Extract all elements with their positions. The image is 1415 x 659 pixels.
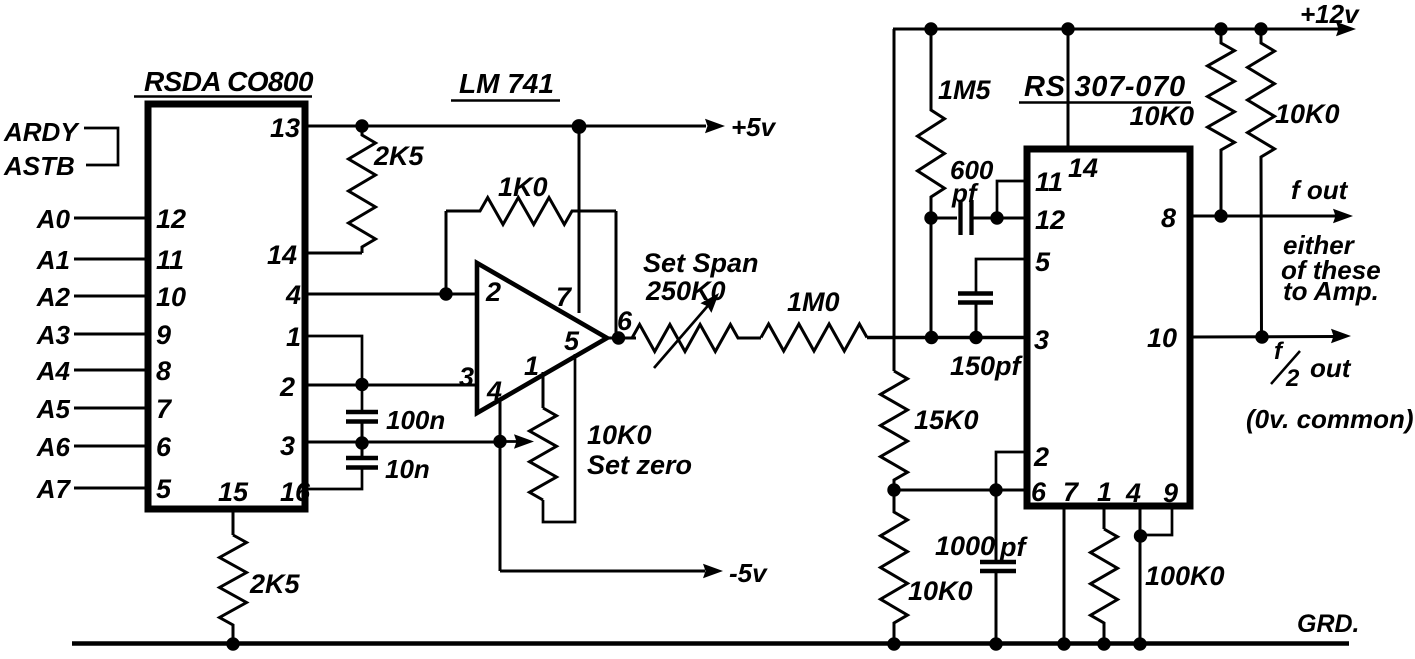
wire pin2(U3) jog xyxy=(996,452,1024,490)
wire pin8(U3) f out xyxy=(1190,215,1339,218)
svg-text:A4: A4 xyxy=(36,356,71,386)
wire op-amp output xyxy=(605,337,636,340)
svg-text:3: 3 xyxy=(1034,325,1049,355)
IC U3 RS 307-070 body xyxy=(1027,149,1190,506)
svg-text:14: 14 xyxy=(267,240,297,270)
svg-text:2K5: 2K5 xyxy=(249,569,301,599)
op-amp U2 triangle xyxy=(477,263,607,413)
svg-text:1M5: 1M5 xyxy=(938,75,992,105)
junction dot pin13/2K5 xyxy=(355,119,368,132)
svg-text:14: 14 xyxy=(1068,153,1098,183)
wire 1M5 node to pin3 line xyxy=(930,218,933,338)
svg-text:RSDA CO800: RSDA CO800 xyxy=(144,66,314,97)
wire pin1(U3) lead xyxy=(1103,506,1106,529)
wire pin10(U3) f/2 out xyxy=(1190,335,1336,339)
resistor R6 1M0 xyxy=(761,324,867,351)
wire A3 input xyxy=(74,333,145,336)
wire A1 input xyxy=(74,258,145,261)
arrow -5v xyxy=(703,564,723,579)
svg-text:A2: A2 xyxy=(36,282,71,312)
svg-text:f out: f out xyxy=(1291,175,1349,205)
svg-text:GRD.: GRD. xyxy=(1297,610,1360,638)
junction dot pin3 line/C4 xyxy=(969,331,982,344)
svg-text:pf: pf xyxy=(951,178,979,208)
svg-text:1: 1 xyxy=(524,351,539,381)
wire 1K0 left leg xyxy=(445,211,448,294)
resistor R7 15K0 xyxy=(881,371,908,490)
svg-text:100n: 100n xyxy=(386,405,445,435)
wire pin 14 stub xyxy=(305,252,362,255)
resistor R1 2K5 (pin13-pin14) xyxy=(349,125,376,253)
wire pin2(U1) to op-amp pin3 xyxy=(305,384,477,387)
wire +12v left drop xyxy=(893,29,896,371)
wire pot bottom to pin5(U2) xyxy=(543,354,575,522)
svg-text:1: 1 xyxy=(1097,477,1112,507)
svg-text:RS 307-070: RS 307-070 xyxy=(1024,71,1186,103)
svg-text:2: 2 xyxy=(279,372,295,402)
wire 600pf to pin12 xyxy=(972,217,1025,220)
svg-text:A0: A0 xyxy=(36,204,71,234)
svg-text:10K0: 10K0 xyxy=(1129,101,1194,131)
wire C2 to pin16 xyxy=(305,468,362,490)
svg-text:13: 13 xyxy=(270,113,300,143)
junction dot pin6/1000pf xyxy=(989,483,1002,496)
arrow f out xyxy=(1333,209,1353,224)
svg-text:4: 4 xyxy=(285,280,301,310)
potentiometer R5 250K0 set span xyxy=(632,325,761,352)
wire 1000pf top lead xyxy=(995,490,998,561)
wiper arrow R5 diagonal xyxy=(654,301,712,368)
wire pin4(U1) to op-amp pin2 xyxy=(305,293,477,296)
junction dot R10/ground xyxy=(1097,637,1110,650)
junction dot 15K0/pin6 node xyxy=(887,483,900,496)
svg-text:6: 6 xyxy=(156,432,172,462)
wire +12v rail xyxy=(893,28,1341,31)
junction dot +12v/10K0b xyxy=(1254,22,1267,35)
capacitor C2 10n xyxy=(346,456,378,461)
wire pin4(U3) to ground xyxy=(1139,506,1142,644)
resistor R9 1M5 xyxy=(918,29,945,218)
svg-text:12: 12 xyxy=(1035,205,1065,235)
svg-text:A6: A6 xyxy=(36,432,71,462)
junction dot pin10/R12 xyxy=(1255,330,1268,343)
ground rail GRD xyxy=(72,641,1349,646)
svg-text:1K0: 1K0 xyxy=(498,172,548,202)
svg-text:+12v: +12v xyxy=(1300,0,1360,29)
svg-text:5: 5 xyxy=(1035,247,1051,277)
svg-text:6: 6 xyxy=(1031,477,1047,507)
resistor R3 1K0 feedback xyxy=(446,198,616,225)
junction dot C5/ground xyxy=(989,637,1002,650)
svg-text:10: 10 xyxy=(156,282,186,312)
wire pin 15 lead xyxy=(232,509,235,535)
wire pin1(U1) stub xyxy=(305,336,362,412)
junction dot pin8/R11 xyxy=(1214,209,1227,222)
wire pin3(U1) to set-zero node xyxy=(305,441,500,444)
svg-text:7: 7 xyxy=(1063,477,1080,507)
junction dot pin1/pin2 node xyxy=(355,378,368,391)
wire C1 to pin3 node xyxy=(361,422,364,459)
wire +5v rail from pin 13 xyxy=(305,125,706,128)
svg-text:A7: A7 xyxy=(36,474,72,504)
IC U1 RSDA CO800 body xyxy=(148,104,305,509)
junction dot pin11/pin12 node xyxy=(990,211,1003,224)
resistor R12 10K0 (pin10 pull-up) xyxy=(1248,29,1275,337)
svg-text:10K0: 10K0 xyxy=(587,420,652,450)
svg-text:1M0: 1M0 xyxy=(787,287,840,317)
svg-text:250K0: 250K0 xyxy=(645,276,726,306)
svg-text:-5v: -5v xyxy=(729,558,768,588)
svg-text:7: 7 xyxy=(556,282,573,312)
wire A2 input xyxy=(74,295,145,298)
wire 1K0 right leg to output xyxy=(615,211,618,338)
svg-text:2: 2 xyxy=(1285,365,1300,392)
wire pin11 jog xyxy=(997,181,1024,218)
wire ARDY-ASTB bracket xyxy=(84,128,118,165)
resistor R10 100K0 xyxy=(1091,529,1118,644)
svg-text:1: 1 xyxy=(286,322,301,352)
svg-text:12: 12 xyxy=(156,204,186,234)
svg-text:11: 11 xyxy=(156,245,184,275)
capacitor C4 150pf xyxy=(958,291,993,296)
junction dot +12v/10K0a xyxy=(1214,22,1227,35)
svg-text:5: 5 xyxy=(156,474,172,504)
svg-text:8: 8 xyxy=(156,356,171,386)
svg-text:pf: pf xyxy=(999,532,1028,562)
svg-text:A3: A3 xyxy=(36,320,71,350)
wire pin5(U3) stub xyxy=(976,259,1024,292)
svg-text:ARDY: ARDY xyxy=(3,117,80,147)
wire 1000pf to ground xyxy=(995,571,998,644)
svg-text:3: 3 xyxy=(459,362,474,392)
wire C4 to pin3 line xyxy=(975,303,978,338)
svg-text:to Amp.: to Amp. xyxy=(1283,276,1379,306)
svg-text:5: 5 xyxy=(564,326,580,356)
svg-text:10: 10 xyxy=(1147,323,1177,353)
svg-text:Set zero: Set zero xyxy=(587,450,692,480)
svg-text:LM 741: LM 741 xyxy=(459,68,554,99)
svg-text:A5: A5 xyxy=(36,394,71,424)
svg-text:(0v. common): (0v. common) xyxy=(1246,404,1414,434)
junction dot pin7/ground xyxy=(1057,637,1070,650)
svg-text:2: 2 xyxy=(1033,442,1049,472)
svg-text:10n: 10n xyxy=(385,454,430,484)
junction dot op-amp pin2 input xyxy=(439,287,452,300)
svg-text:ASTB: ASTB xyxy=(3,151,75,181)
svg-text:11: 11 xyxy=(1035,167,1063,197)
wire pin14(U3) supply drop xyxy=(1067,29,1070,146)
capacitor C1 100n xyxy=(346,410,378,415)
junction dot pin4/ground xyxy=(1133,637,1146,650)
wire A6 input xyxy=(74,445,145,448)
svg-text:150pf: 150pf xyxy=(950,351,1024,381)
wire pin7(U3) to ground xyxy=(1063,506,1066,644)
svg-text:Set Span: Set Span xyxy=(643,248,759,278)
wire A4 input xyxy=(74,369,145,372)
junction dot R2/ground xyxy=(226,637,239,650)
junction dot +12v/pin14 xyxy=(1061,22,1074,35)
junction dot op-amp output xyxy=(612,331,625,344)
junction dot 1M5/600pf xyxy=(924,211,937,224)
junction dot pin3 line/1M5 xyxy=(925,331,938,344)
wire pin9(U3) jog xyxy=(1140,506,1172,535)
arrow +5v xyxy=(705,119,725,134)
resistor R11 10K0 (pin8 pull-up) xyxy=(1208,29,1235,216)
svg-text:9: 9 xyxy=(156,320,171,350)
svg-text:+5v: +5v xyxy=(731,112,777,142)
resistor R8 10K0 lower xyxy=(881,490,908,644)
svg-text:100K0: 100K0 xyxy=(1145,561,1225,591)
junction dot pin4/pin9 node xyxy=(1134,529,1147,542)
svg-text:10K0: 10K0 xyxy=(1275,99,1340,129)
wire A7 input xyxy=(74,487,145,490)
svg-text:2K5: 2K5 xyxy=(373,141,425,171)
wiper arrow R4 xyxy=(500,440,522,443)
junction dot set-zero node xyxy=(493,435,506,448)
capacitor C5 1000pf xyxy=(980,560,1016,565)
capacitor C3 600pf xyxy=(958,200,962,235)
junction dot +12v/1M5 xyxy=(924,22,937,35)
resistor R2 2K5 (pin15-GRD) xyxy=(220,535,247,644)
svg-text:out: out xyxy=(1310,353,1352,383)
wire 1M0 to pin3(U3) xyxy=(867,336,1024,340)
svg-text:1000: 1000 xyxy=(935,531,995,561)
svg-text:3: 3 xyxy=(280,431,295,461)
junction dot +5v/op-amp supply xyxy=(572,119,587,134)
svg-text:A1: A1 xyxy=(36,245,70,275)
wire pin6(U3) line xyxy=(894,489,1024,492)
svg-text:2: 2 xyxy=(485,277,501,307)
svg-text:7: 7 xyxy=(156,394,173,424)
wire A0 input xyxy=(74,217,145,220)
wire 600pf left lead xyxy=(931,217,957,220)
junction dot R8/ground xyxy=(887,637,900,650)
svg-text:4: 4 xyxy=(1125,478,1141,508)
arrow +12v xyxy=(1336,22,1356,37)
wire -5v xyxy=(500,570,705,573)
svg-text:15K0: 15K0 xyxy=(914,405,979,435)
arrow f/2 out xyxy=(1331,329,1351,344)
wire pin1(U2) lead xyxy=(542,372,545,408)
svg-text:8: 8 xyxy=(1161,203,1176,233)
svg-text:15: 15 xyxy=(218,477,249,507)
svg-text:10K0: 10K0 xyxy=(908,576,973,606)
wire pin4(U2) drop to -5v xyxy=(499,399,502,571)
wire A5 input xyxy=(74,407,145,410)
svg-text:16: 16 xyxy=(280,477,311,507)
junction dot pin3 node xyxy=(355,436,368,449)
svg-text:9: 9 xyxy=(1163,478,1178,508)
wire op-amp V+ supply drop xyxy=(578,126,581,313)
potentiometer R4 10K0 set zero xyxy=(530,408,557,500)
